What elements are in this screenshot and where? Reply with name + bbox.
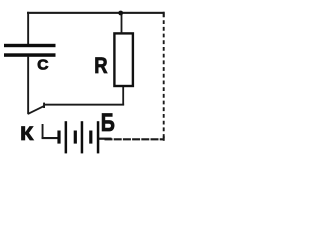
capacitor C bottom plate (4, 53, 56, 57)
battery B cell 3 short plate (89, 131, 92, 144)
battery B cell 3 tall plate (97, 121, 100, 153)
battery B cell 2 tall plate (81, 121, 84, 153)
wire top horizontal (27, 12, 165, 14)
svg-text:Б: Б (101, 109, 115, 137)
svg-text:R: R (94, 53, 108, 78)
wire bottom dashed segment to right edge (105, 138, 164, 140)
battery B cell 1 short plate (57, 131, 60, 144)
wire resistor top lead (121, 13, 123, 34)
battery B cell 2 short plate (74, 131, 77, 144)
wire battery left hook vertical (42, 124, 44, 139)
wire left riser from capacitor top plate (27, 12, 29, 47)
wire resistor bottom lead (122, 86, 124, 105)
battery B cell 1 tall plate (65, 121, 68, 153)
wire bottom horizontal from switch to resistor bottom lead (45, 104, 125, 106)
svg-text:К: К (20, 123, 34, 145)
wire capacitor bottom lead down to switch pivot (27, 57, 29, 115)
capacitor C top plate (4, 44, 56, 47)
wire battery right lead (99, 138, 112, 140)
wire battery left hook horizontal (42, 137, 58, 139)
svg-text:C: C (37, 56, 48, 73)
wire top right corner elbow (163, 12, 165, 17)
switch K contact tick (43, 103, 45, 108)
resistor R body (114, 33, 132, 86)
junction dot on top wire (118, 11, 123, 16)
wire bottom right corner elbow (163, 136, 165, 141)
wire right vertical dashed branch (163, 14, 165, 139)
switch K lever (28, 106, 44, 114)
